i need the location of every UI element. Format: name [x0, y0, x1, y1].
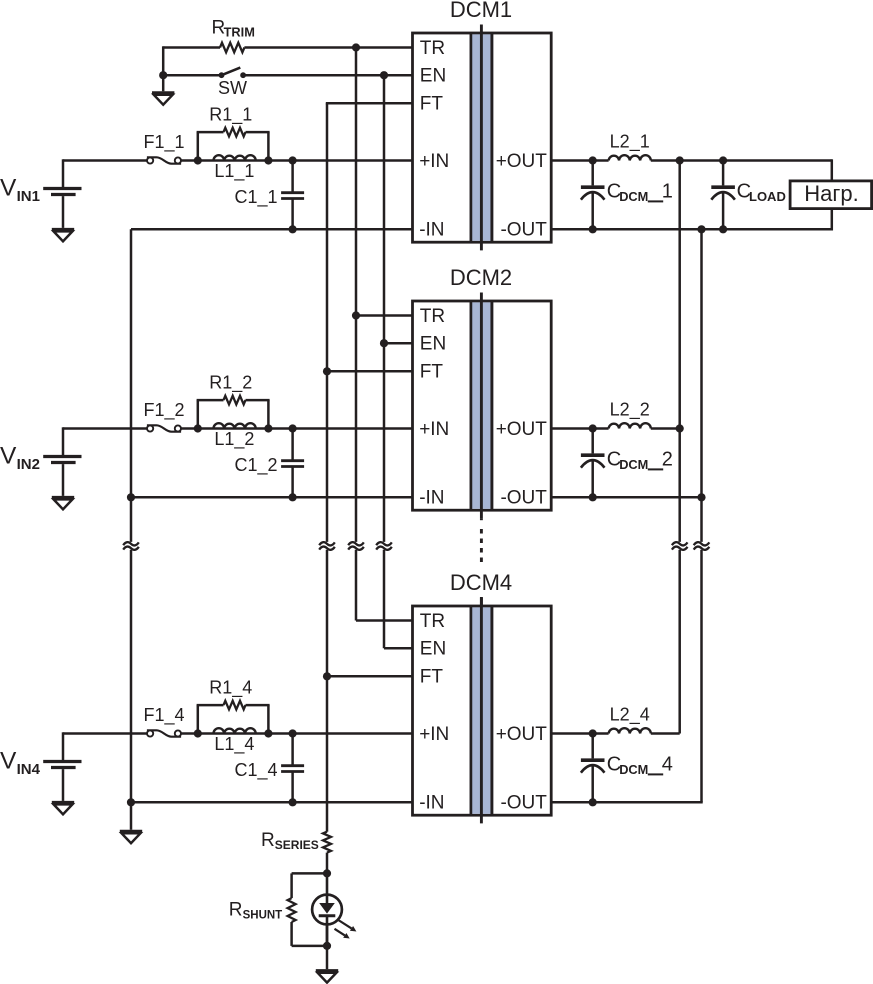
label C1_1 — [235, 187, 278, 208]
svg-text:C1_4: C1_4 — [235, 760, 278, 781]
op-amp U2 DCM2 module box — [413, 301, 552, 510]
svg-text:R1_4: R1_4 — [209, 678, 252, 699]
svg-text:-OUT: -OUT — [500, 793, 547, 814]
capacitor C1_4 — [281, 734, 304, 803]
capacitor CLOAD — [711, 161, 735, 230]
pin label -OUT DCM2 — [500, 488, 547, 509]
wire TR bus — [355, 48, 358, 621]
resistor R1_4 with bypass bracket — [197, 701, 270, 734]
svg-text:DCM4: DCM4 — [450, 570, 512, 595]
wire EN pin section 2 — [384, 342, 413, 345]
wire +IN net section 2 — [63, 427, 413, 430]
break marks on -OUT bus — [694, 542, 710, 550]
op-amp U4 DCM4 module box — [413, 606, 552, 815]
node CLOAD bottom junction — [719, 225, 727, 233]
node R1 left junction section 2 — [194, 424, 202, 432]
wire RSHUNT branch top — [292, 873, 327, 898]
node EN bus tap DCM1 — [380, 71, 388, 79]
svg-text:IN2: IN2 — [17, 456, 40, 473]
svg-text:F1_2: F1_2 — [143, 400, 184, 421]
wire -IN net section 4 — [131, 801, 413, 804]
svg-text:F1_4: F1_4 — [143, 705, 184, 726]
fuse F1_1 — [147, 157, 181, 163]
label CLOAD — [737, 181, 786, 205]
capacitor CDCM_1 — [581, 161, 605, 230]
wire FT net DCM1 — [326, 102, 413, 105]
svg-text:2: 2 — [662, 449, 673, 471]
svg-text:-IN: -IN — [419, 793, 444, 814]
ground at VIN4 — [52, 802, 74, 814]
fuse F1_4 — [147, 730, 181, 736]
node EN bus tap DCM2 — [380, 339, 388, 347]
svg-text:L2_4: L2_4 — [610, 705, 650, 726]
ground at -IN bus — [120, 831, 142, 843]
node CLOAD top junction — [719, 156, 727, 164]
node CDCM top junction section 1 — [589, 156, 597, 164]
svg-text:EN: EN — [420, 66, 446, 87]
node C1 bottom junction section 4 — [289, 798, 297, 806]
svg-text:DCM1: DCM1 — [450, 0, 512, 22]
pin label -OUT DCM4 — [500, 793, 547, 814]
svg-text:DCM: DCM — [619, 189, 648, 204]
node R1 right junction section 2 — [264, 424, 272, 432]
svg-text:C1_1: C1_1 — [235, 187, 278, 208]
pin label -IN DCM1 — [419, 220, 444, 241]
wire LED to ground — [326, 946, 329, 969]
wire -IN net section 1 — [131, 228, 413, 231]
svg-text:L1_4: L1_4 — [214, 734, 254, 755]
label CDCM_1 — [607, 181, 673, 205]
wire TR pin section 4 — [356, 619, 413, 622]
break marks on +OUT bus — [672, 542, 688, 550]
svg-text:C1_2: C1_2 — [235, 455, 278, 476]
label L2_4 — [610, 705, 650, 726]
pin label FT DCM1 — [420, 94, 444, 115]
isolation barrier DCM4 — [470, 598, 494, 824]
node LED bottom junction — [323, 942, 331, 950]
capacitor C1_2 — [281, 429, 304, 498]
svg-text:V: V — [0, 747, 17, 774]
node R1 right junction section 1 — [264, 156, 272, 164]
node CDCM bottom junction section 1 — [589, 225, 597, 233]
ground at LED — [316, 971, 338, 983]
label R1_1 — [209, 105, 252, 126]
label F1_4 — [143, 705, 184, 726]
svg-text:DCM2: DCM2 — [450, 265, 512, 290]
label RTRIM — [212, 18, 255, 40]
pin label -IN DCM4 — [419, 793, 444, 814]
wire +IN net section 4 — [63, 732, 413, 735]
svg-text:L1_2: L1_2 — [214, 429, 254, 450]
wire -OUT net DCM1 — [551, 228, 832, 231]
svg-text:TR: TR — [420, 611, 445, 632]
node -OUT bus junction DCM1 — [697, 225, 705, 233]
inductor L1_2 — [214, 423, 256, 428]
node R1 right junction section 4 — [264, 729, 272, 737]
svg-text:+IN: +IN — [419, 724, 449, 745]
svg-text:EN: EN — [420, 334, 446, 355]
wire TR net from RTRIM to DCM1 TR pin — [163, 46, 412, 49]
label R1_2 — [209, 373, 252, 394]
ground at RTRIM/SW — [152, 93, 174, 105]
pin label +OUT DCM4 — [496, 724, 548, 745]
svg-text:FT: FT — [420, 667, 444, 688]
node R1 left junction section 1 — [194, 156, 202, 164]
svg-text:SERIES: SERIES — [275, 838, 319, 852]
battery VIN2 — [43, 427, 81, 496]
node C1 top junction section 4 — [289, 729, 297, 737]
wire -IN bus — [130, 229, 133, 830]
label CDCM_2 — [607, 449, 673, 473]
wire FT pin section 4 — [327, 675, 413, 678]
capacitor C1_1 — [281, 161, 304, 230]
node C1 top junction section 1 — [289, 156, 297, 164]
resistor RSHUNT — [288, 898, 296, 922]
label DCM4 — [450, 570, 512, 595]
break marks on -IN bus — [123, 542, 139, 550]
wire +OUT net section 4 — [551, 732, 680, 735]
svg-text:-IN: -IN — [419, 220, 444, 241]
capacitor CDCM_4 — [581, 734, 605, 803]
label L1_2 — [214, 429, 254, 450]
svg-text:EN: EN — [420, 639, 446, 660]
label L1_1 — [214, 161, 254, 182]
svg-text:-OUT: -OUT — [500, 220, 547, 241]
pin label +OUT DCM1 — [496, 151, 548, 172]
wire EN pin section 4 — [384, 647, 413, 650]
LED light arrows — [335, 920, 357, 939]
isolation barrier DCM1 — [470, 25, 494, 251]
label VIN1 — [0, 174, 40, 205]
pin label -IN DCM2 — [419, 488, 444, 509]
inductor L2_4 — [609, 728, 651, 733]
wire +OUT bus — [678, 161, 681, 734]
node +OUT bus junction DCM2 — [676, 424, 684, 432]
inductor L1_1 — [214, 155, 256, 160]
wire FT bus — [326, 103, 329, 831]
svg-text:FT: FT — [420, 94, 444, 115]
svg-text:F1_1: F1_1 — [143, 132, 184, 153]
label L2_2 — [610, 400, 650, 421]
resistor R1_2 with bypass bracket — [197, 396, 270, 429]
wire load bottom to -OUT bus — [831, 209, 834, 231]
battery VIN1 — [43, 159, 81, 228]
wire +OUT net section 1 — [551, 159, 832, 162]
label Нагр. — [804, 181, 859, 206]
pin label FT DCM4 — [420, 667, 444, 688]
node -OUT bus junction DCM2 — [697, 493, 705, 501]
wire -OUT net DCM2 — [551, 496, 701, 499]
inductor L1_4 — [214, 728, 256, 733]
svg-text:4: 4 — [662, 754, 673, 776]
svg-text:L2_2: L2_2 — [610, 400, 650, 421]
svg-text:V: V — [0, 174, 17, 201]
wire +OUT net section 2 — [551, 427, 680, 430]
node CDCM top junction section 4 — [589, 729, 597, 737]
node R1 left junction section 4 — [194, 729, 202, 737]
pin label EN DCM2 — [420, 334, 446, 355]
fuse F1_2 — [147, 425, 181, 431]
op-amp U1 DCM1 module box — [413, 33, 552, 242]
pin label +IN DCM1 — [419, 151, 449, 172]
wire -IN net section 2 — [131, 496, 413, 499]
svg-text:+OUT: +OUT — [496, 419, 548, 440]
pin label TR DCM2 — [420, 306, 445, 327]
svg-text:+OUT: +OUT — [496, 724, 548, 745]
node -IN bus tap section 4 — [127, 798, 135, 806]
svg-text:+IN: +IN — [419, 151, 449, 172]
svg-text:-IN: -IN — [419, 488, 444, 509]
svg-text:SHUNT: SHUNT — [243, 910, 283, 922]
pin label EN DCM1 — [420, 66, 446, 87]
wire +IN net section 1 — [63, 159, 413, 162]
node CDCM top junction section 2 — [589, 424, 597, 432]
wire TR pin section 2 — [356, 314, 413, 317]
wire FT pin section 2 — [327, 370, 413, 373]
pin label +IN DCM2 — [419, 419, 449, 440]
wire from RTRIM down to ground — [162, 46, 165, 91]
wire RSHUNT branch bottom — [292, 922, 327, 946]
svg-text:LOAD: LOAD — [749, 189, 786, 204]
pin label TR DCM1 — [420, 38, 445, 59]
node -IN bus tap section 2 — [127, 493, 135, 501]
svg-text:SW: SW — [218, 78, 247, 98]
battery VIN4 — [43, 732, 81, 801]
node TR bus tap DCM2 — [352, 311, 360, 319]
svg-text:V: V — [0, 442, 17, 469]
svg-text:DCM: DCM — [619, 762, 648, 777]
label L2_1 — [610, 132, 650, 153]
switch SW — [219, 68, 246, 79]
ground at VIN2 — [52, 497, 74, 509]
svg-text:L1_1: L1_1 — [214, 161, 254, 182]
svg-text:R1_1: R1_1 — [209, 105, 252, 126]
node C1 bottom junction section 1 — [289, 225, 297, 233]
wire -OUT bus — [700, 229, 703, 802]
isolation barrier DCM2 — [470, 293, 494, 519]
label F1_2 — [143, 400, 184, 421]
svg-text:+IN: +IN — [419, 419, 449, 440]
svg-text:IN1: IN1 — [17, 188, 40, 205]
node C1 top junction section 2 — [289, 424, 297, 432]
svg-text:FT: FT — [420, 362, 444, 383]
svg-text:L2_1: L2_1 — [610, 132, 650, 153]
node C1 bottom junction section 2 — [289, 493, 297, 501]
dashed isolation line between DCM2 and DCM4 — [480, 518, 483, 606]
pin label +OUT DCM2 — [496, 419, 548, 440]
svg-text:IN4: IN4 — [17, 761, 41, 778]
pin label +IN DCM4 — [419, 724, 449, 745]
ground at VIN1 — [52, 229, 74, 241]
node +OUT bus junction DCM1 — [676, 156, 684, 164]
wire EN bus — [383, 75, 386, 648]
label RSERIES — [261, 830, 319, 852]
pin label FT DCM2 — [420, 362, 444, 383]
inductor L2_1 — [609, 155, 651, 160]
svg-text:Нагр.: Нагр. — [804, 181, 859, 206]
label C1_4 — [235, 760, 278, 781]
label R1_4 — [209, 678, 252, 699]
load box Нагр. — [790, 181, 872, 209]
capacitor CDCM_2 — [581, 429, 605, 498]
node TR bus tap DCM1 — [352, 43, 360, 51]
pin label EN DCM4 — [420, 639, 446, 660]
svg-text:R: R — [261, 830, 275, 851]
svg-text:TRIM: TRIM — [224, 25, 255, 40]
node RSERIES/LED junction — [323, 869, 331, 877]
break marks on EN bus — [376, 542, 392, 550]
svg-text:R1_2: R1_2 — [209, 373, 252, 394]
label L1_4 — [214, 734, 254, 755]
label DCM1 — [450, 0, 512, 22]
label VIN2 — [0, 442, 40, 473]
pin label TR DCM4 — [420, 611, 445, 632]
svg-text:R: R — [229, 900, 243, 921]
label CDCM_4 — [607, 754, 673, 778]
node CDCM bottom junction section 2 — [589, 493, 597, 501]
svg-text:+OUT: +OUT — [496, 151, 548, 172]
node junction RTRIM/SW/ground — [159, 71, 167, 79]
LED D1 — [312, 873, 342, 946]
node CDCM bottom junction section 4 — [589, 798, 597, 806]
resistor R1_1 with bypass bracket — [197, 128, 270, 161]
label C1_2 — [235, 455, 278, 476]
label VIN4 — [0, 747, 41, 778]
svg-text:1: 1 — [662, 181, 673, 203]
label RSHUNT — [229, 900, 282, 922]
svg-text:DCM: DCM — [619, 457, 648, 472]
pin label -OUT DCM1 — [500, 220, 547, 241]
label DCM2 — [450, 265, 512, 290]
wire -OUT net DCM4 — [551, 801, 703, 804]
label F1_1 — [143, 132, 184, 153]
resistor RTRIM — [220, 43, 244, 53]
break marks on FT bus — [319, 542, 335, 550]
inductor L2_2 — [609, 423, 651, 428]
label SW — [218, 78, 247, 98]
wire output bus corner down to load — [831, 159, 834, 181]
node FT bus tap section 4 — [323, 672, 331, 680]
svg-text:-OUT: -OUT — [500, 488, 547, 509]
resistor RSERIES — [323, 832, 331, 874]
wire EN net with switch gap — [163, 74, 412, 77]
node FT bus tap section 2 — [323, 367, 331, 375]
break marks on TR bus — [348, 542, 364, 550]
svg-text:TR: TR — [420, 306, 445, 327]
svg-text:TR: TR — [420, 38, 445, 59]
